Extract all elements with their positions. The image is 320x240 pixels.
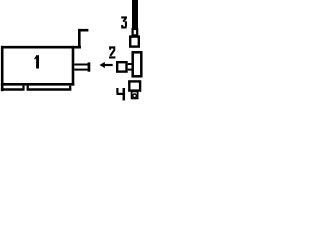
- item 4 top box: [129, 81, 140, 90]
- label 1: [34, 55, 39, 68]
- vertical fitting: [133, 52, 142, 76]
- port stub bottom line: [74, 69, 88, 71]
- plug 3 body: [130, 37, 139, 47]
- device left edge: [1, 46, 4, 91]
- item 4 bottom box: [132, 91, 138, 98]
- plug 3 neck: [133, 29, 138, 35]
- item 4 circle: [133, 94, 137, 98]
- device body top edge: [1, 46, 81, 49]
- device right edge: [72, 46, 75, 86]
- left foot right vertical: [22, 86, 24, 91]
- side plug stub to fitting: [128, 64, 133, 70]
- device step vertical: [78, 29, 81, 49]
- device bottom edge: [1, 83, 74, 86]
- port stub top line: [74, 64, 88, 66]
- right foot right vertical: [69, 86, 71, 91]
- right foot left vertical: [27, 86, 29, 91]
- label 2: [109, 46, 115, 58]
- label 4 (open-top style): [117, 88, 125, 100]
- port stub end cap: [88, 62, 91, 71]
- right foot bottom: [27, 88, 72, 91]
- arrow pointing left (insert direction for 2): [100, 62, 113, 68]
- device step horizontal: [78, 29, 88, 32]
- label 3: [121, 16, 127, 28]
- cable of plug 3: [132, 0, 138, 29]
- left foot bottom: [1, 88, 24, 91]
- side plug body (item 2): [117, 62, 126, 71]
